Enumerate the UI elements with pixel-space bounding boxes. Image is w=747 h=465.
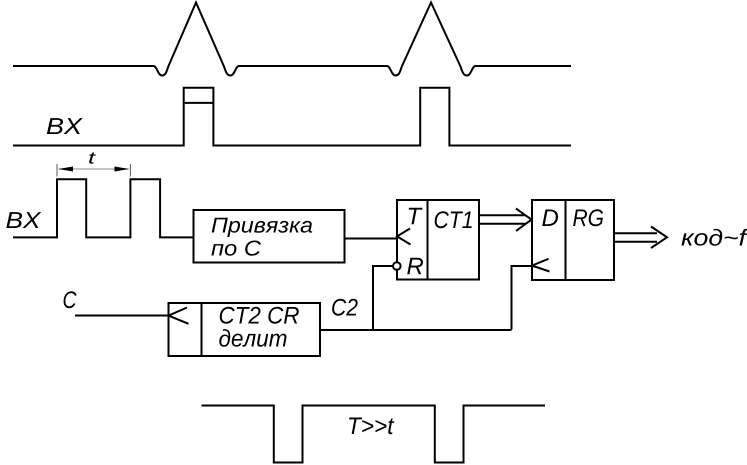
label t (89, 153, 96, 164)
pin T label (409, 208, 423, 225)
wire : box output to CT1 T input (345, 238, 398, 240)
register clock symbol (532, 259, 550, 272)
dimension t : extension lines (57, 164, 130, 177)
label RG (573, 209, 603, 226)
pin D label (542, 209, 558, 226)
wire : BX digital waveform with two pulses (13, 88, 571, 146)
register divider (565, 200, 567, 280)
register D RG box (532, 200, 614, 280)
label CT1 (435, 211, 472, 228)
wire : double bus line CT1 to D (479, 215, 526, 224)
wire : output double bus from RG (614, 233, 657, 242)
label код~f (681, 229, 747, 246)
label делит (219, 329, 286, 347)
wire : clock wire into register (512, 266, 533, 330)
label CT2 CR (220, 307, 299, 324)
output bus arrowhead (651, 227, 667, 249)
counter CT1 box (397, 200, 479, 280)
dimension t : left arrowhead (58, 167, 73, 172)
wire : bottom T waveform with two negative pulses (202, 406, 546, 463)
node C label (64, 291, 77, 308)
node BX label (input square wave) (6, 212, 41, 228)
pin R inversion bubble (393, 262, 401, 270)
dimension t : dimension line (59, 168, 129, 170)
wire : top analog waveform with two triangular pulses (13, 3, 571, 76)
wire : CT2 output C2 line to register clock drop (320, 329, 512, 331)
wire : from R bubble left and down to C2 line (373, 266, 393, 330)
CT2 clock symbol (169, 308, 189, 324)
counter CT2 divider (201, 303, 203, 356)
wire : inner level line inside first BX pulse (184, 102, 214, 104)
node BX label (pulse waveform) (47, 118, 83, 134)
wire : C input line (75, 315, 169, 317)
pin R label (407, 258, 423, 275)
bus arrowhead into D (516, 209, 532, 232)
counter CT1 divider (427, 200, 429, 280)
label T>>t (349, 417, 394, 434)
node C2 label (332, 299, 358, 316)
wire : input square waveform into box (13, 179, 194, 237)
block "Привязка по С" (194, 210, 345, 263)
dimension t : right arrowhead (115, 167, 130, 172)
pin T clock symbol (397, 229, 411, 245)
counter CT2 box (169, 303, 321, 356)
